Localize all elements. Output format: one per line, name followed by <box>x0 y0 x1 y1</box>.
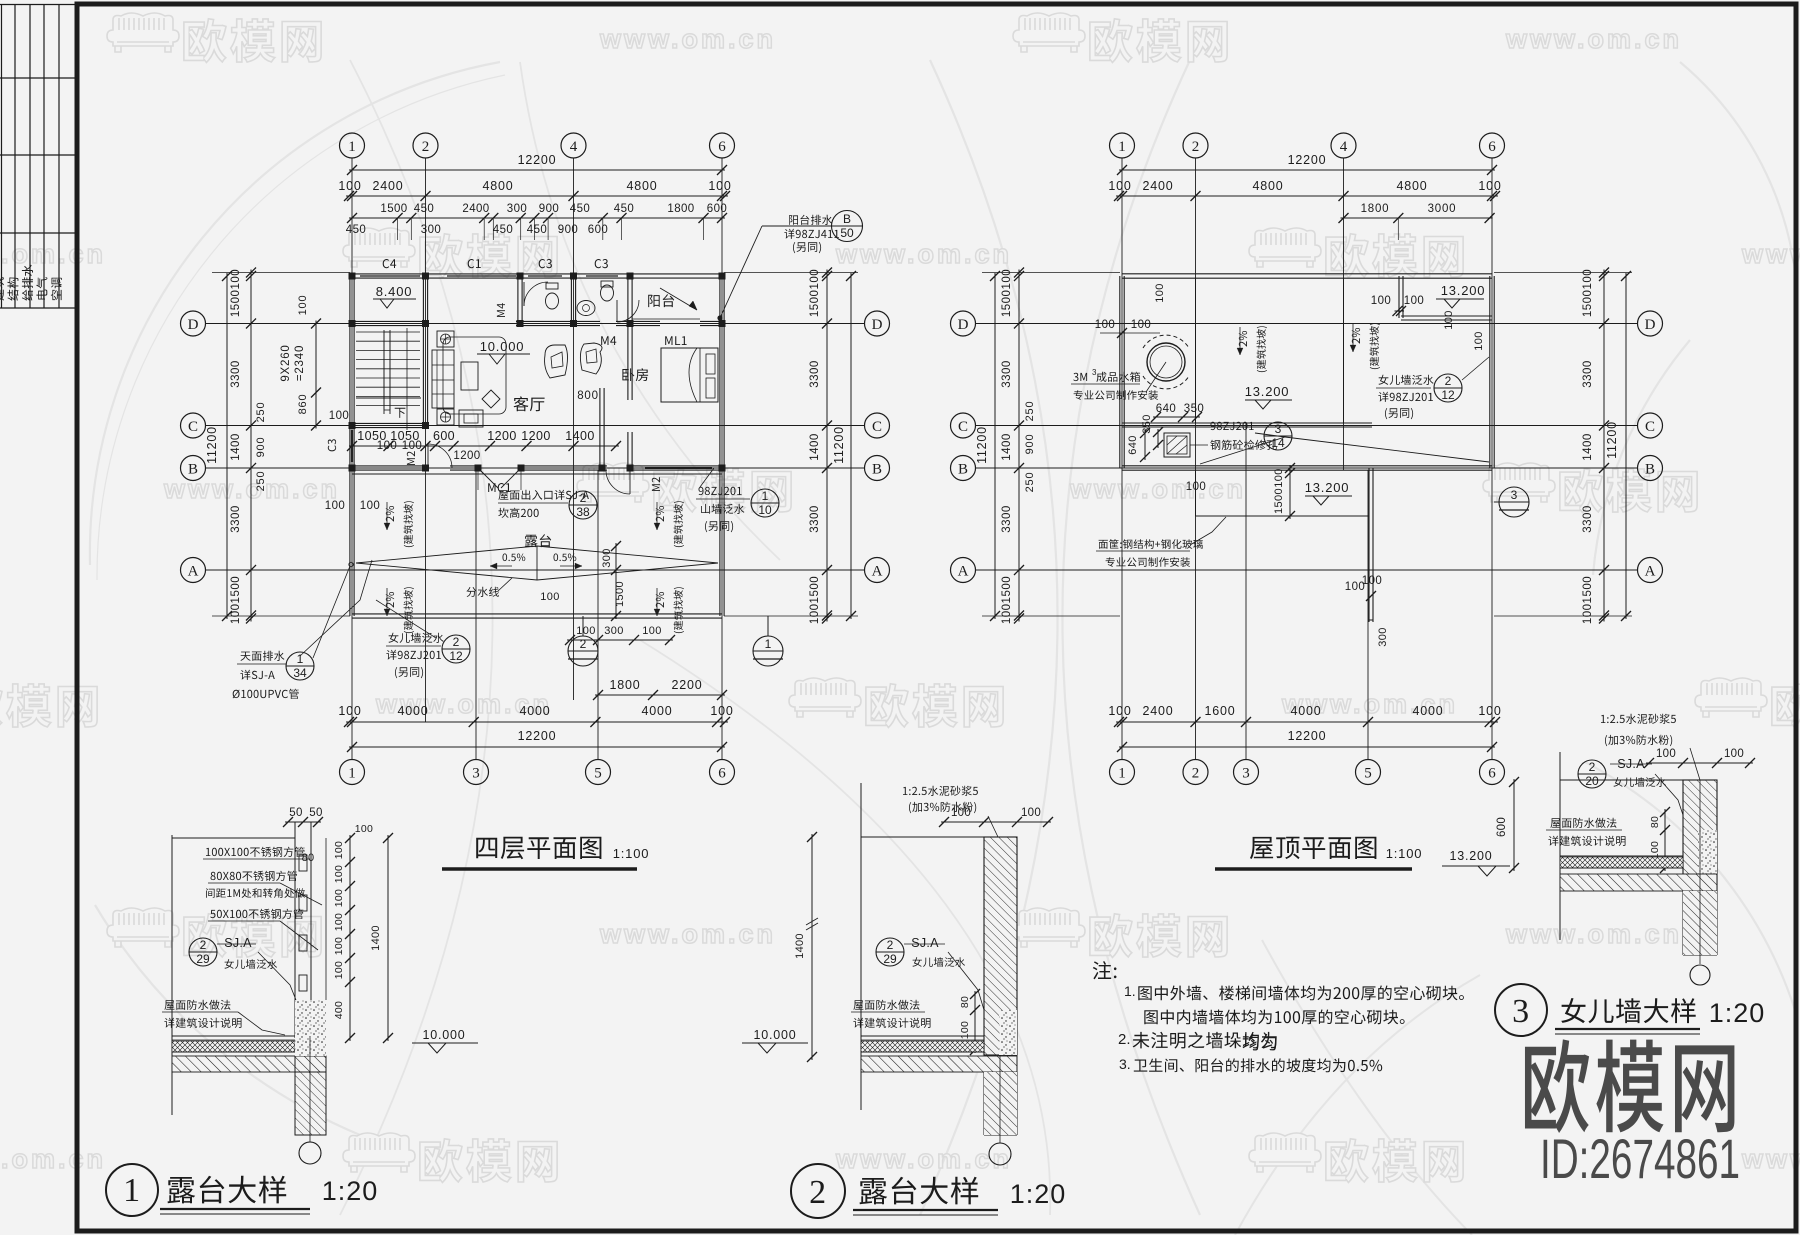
strip label 空调 <box>51 278 62 300</box>
svg-text:100: 100 <box>377 440 397 452</box>
exterior wall left <box>349 276 351 616</box>
grid bubble B right <box>865 456 890 481</box>
grid bubble 6 bottom <box>710 760 735 785</box>
grid bubble C left <box>181 413 206 438</box>
grid line 4 <box>573 158 575 470</box>
svg-text:1400: 1400 <box>809 433 821 461</box>
column D wall <box>349 320 356 327</box>
svg-text:1500100: 1500100 <box>1001 269 1013 317</box>
svg-text:B: B <box>188 461 198 477</box>
column top wall <box>627 273 634 280</box>
svg-text:1200: 1200 <box>453 450 480 462</box>
column B wall <box>627 465 634 472</box>
grid bubble D right <box>865 311 890 336</box>
site logo bottom right <box>1525 1039 1734 1133</box>
column top wall <box>349 273 356 280</box>
roof inner line 2 <box>1195 278 1197 423</box>
window C3b <box>586 273 618 275</box>
wall on grid B <box>352 465 425 467</box>
canopy below B <box>1195 470 1197 516</box>
roof grid bubble 2 bottom <box>1183 760 1208 785</box>
roof grid bubble B left <box>951 456 976 481</box>
svg-text:1001500: 1001500 <box>809 576 821 624</box>
svg-text:6: 6 <box>1488 765 1496 781</box>
column D wall <box>517 320 524 327</box>
column B wall <box>719 465 726 472</box>
svg-text:C: C <box>188 419 198 435</box>
label living room <box>514 396 545 411</box>
roof grid bubble C right <box>1638 413 1663 438</box>
balcony drain annotation <box>789 215 832 225</box>
grid line B <box>205 467 865 469</box>
svg-text:3: 3 <box>472 765 480 781</box>
bath2 door arc <box>616 300 618 322</box>
svg-text:11200: 11200 <box>1605 421 1619 459</box>
column D wall <box>627 320 634 327</box>
label C3 rotated left <box>328 439 336 451</box>
grid bubble 3 bottom <box>464 760 489 785</box>
svg-text:1400: 1400 <box>370 925 382 951</box>
svg-text:ID:2674861: ID:2674861 <box>1540 1127 1740 1190</box>
svg-text:5: 5 <box>594 765 602 781</box>
grid bubble 1 bottom <box>340 760 365 785</box>
door M2 left arc <box>427 444 429 468</box>
svg-text:1: 1 <box>1118 765 1126 781</box>
detail2 SJ.A ref <box>876 938 904 966</box>
svg-text:300: 300 <box>421 224 441 236</box>
detail3 axis line <box>1559 752 1561 940</box>
detail2 wall below <box>983 1072 985 1135</box>
svg-text:2.: 2. <box>1118 1031 1131 1048</box>
slope 0.5% right <box>554 554 577 562</box>
living room rug outline <box>443 337 506 414</box>
svg-text:1200: 1200 <box>487 429 516 443</box>
title: 4th floor plan <box>476 837 601 860</box>
svg-text:11200: 11200 <box>832 426 846 464</box>
bathroom wall vertical 2 (grid 4) <box>570 276 572 324</box>
svg-text:11200: 11200 <box>205 426 219 464</box>
svg-text:100: 100 <box>1095 319 1115 331</box>
roof grid bubble 3 bottom <box>1234 760 1259 785</box>
svg-text:100: 100 <box>576 625 596 637</box>
column top wall <box>422 273 429 280</box>
detail3 SJ.A ref <box>1578 760 1606 788</box>
svg-text:1001500: 1001500 <box>230 576 242 624</box>
detail1 waterproof note <box>164 1000 230 1010</box>
label terrace <box>525 534 551 547</box>
svg-text:11200: 11200 <box>975 426 989 464</box>
svg-text:80: 80 <box>302 852 315 864</box>
svg-text:450: 450 <box>614 203 634 215</box>
svg-text:800: 800 <box>577 390 599 402</box>
svg-text:A: A <box>1645 563 1656 579</box>
detail3 wall speckle <box>1698 830 1717 875</box>
svg-text:B: B <box>843 212 851 226</box>
svg-text:3.: 3. <box>1119 1056 1131 1072</box>
grid bubble 2 top <box>413 133 438 158</box>
svg-text:2: 2 <box>422 139 430 155</box>
svg-text:100: 100 <box>1186 481 1206 493</box>
roof bottom edge at B <box>1122 465 1492 467</box>
label watershed line <box>467 587 500 597</box>
svg-text:100: 100 <box>1021 807 1041 819</box>
label C1 <box>468 259 481 268</box>
svg-text:250: 250 <box>1024 472 1036 493</box>
window C1 <box>447 273 516 275</box>
svg-text:100: 100 <box>355 823 373 835</box>
svg-text:100: 100 <box>338 704 361 718</box>
svg-text:100: 100 <box>1656 748 1676 760</box>
slope 2% group top-left <box>386 506 394 522</box>
svg-text:250: 250 <box>255 471 267 492</box>
svg-text:450: 450 <box>493 224 513 236</box>
detail3 slab <box>1560 855 1683 857</box>
svg-text:D: D <box>1645 317 1656 333</box>
exterior wall right <box>719 276 721 616</box>
svg-text:1400: 1400 <box>565 429 594 443</box>
detail1 top slab line <box>172 837 295 839</box>
svg-text:D: D <box>188 317 199 333</box>
window on B wall bedroom <box>645 465 712 467</box>
svg-text:1:100: 1:100 <box>613 846 650 861</box>
grid bubble C right <box>865 413 890 438</box>
wall on grid D <box>352 320 426 322</box>
svg-text:80: 80 <box>1649 816 1661 828</box>
svg-text:20: 20 <box>1585 774 1599 788</box>
column top wall <box>517 273 524 280</box>
svg-text:100: 100 <box>710 704 733 718</box>
grid line 3R <box>1245 423 1247 760</box>
svg-text:2: 2 <box>453 635 460 649</box>
window C3 left wall <box>349 430 351 462</box>
MC1 double door <box>480 470 498 488</box>
svg-text:100: 100 <box>360 500 380 512</box>
svg-text:10.000: 10.000 <box>480 339 525 354</box>
label xia (down) <box>395 408 406 418</box>
svg-text:100: 100 <box>1371 295 1391 307</box>
svg-text:1800: 1800 <box>667 203 694 215</box>
roof side dims right <box>1625 273 1627 619</box>
svg-text:600: 600 <box>433 429 455 443</box>
detail3 wall below <box>1682 891 1684 955</box>
grid line D <box>205 323 865 325</box>
svg-text:3300: 3300 <box>1001 505 1013 533</box>
svg-text:A: A <box>188 563 199 579</box>
grid line 1R <box>1121 158 1123 760</box>
svg-text:3300: 3300 <box>1001 360 1013 388</box>
column B wall <box>599 465 606 472</box>
grid line B right plan <box>975 467 1638 469</box>
svg-text:12200: 12200 <box>1288 153 1327 167</box>
svg-text:1:20: 1:20 <box>1010 1179 1067 1209</box>
roof grid bubble D left <box>951 311 976 336</box>
svg-text:450: 450 <box>414 203 434 215</box>
svg-text:100: 100 <box>1478 704 1501 718</box>
svg-text:29: 29 <box>196 952 210 966</box>
roof grid bubble 2 top <box>1183 133 1208 158</box>
balcony roof divider <box>1398 276 1400 318</box>
svg-text:12200: 12200 <box>518 729 557 743</box>
label C3b <box>595 259 608 268</box>
svg-text:SJ.A: SJ.A <box>911 936 939 950</box>
tank label <box>1073 373 1087 381</box>
terrace ridge lines <box>356 546 718 563</box>
stair down arrow <box>406 328 408 430</box>
svg-text:3300: 3300 <box>1582 360 1594 388</box>
detail3 parapet wall <box>1683 780 1717 891</box>
svg-text:100: 100 <box>338 179 361 193</box>
grid bubble D left <box>181 311 206 336</box>
detail1 parapet concrete fill <box>295 1000 326 1056</box>
detail2 axis circle <box>989 1143 1011 1165</box>
svg-text:1: 1 <box>348 139 356 155</box>
toilet 2 <box>601 285 614 301</box>
grid bubble A right <box>865 558 890 583</box>
roof side dims left <box>994 273 996 619</box>
balcony bottom rail <box>632 318 700 320</box>
svg-text:100: 100 <box>1131 319 1151 331</box>
bedroom/hall wall <box>627 324 629 401</box>
detail2 top line <box>861 836 984 838</box>
svg-text:100: 100 <box>333 865 345 883</box>
detail 2 title <box>791 1164 845 1218</box>
svg-text:50: 50 <box>309 807 322 819</box>
svg-text:3: 3 <box>1092 368 1097 377</box>
svg-text:13.200: 13.200 <box>1245 384 1290 399</box>
grid line 5 <box>597 470 599 760</box>
svg-text:6: 6 <box>718 139 726 155</box>
svg-text:100: 100 <box>297 295 309 316</box>
svg-text:3000: 3000 <box>1428 203 1457 215</box>
svg-text:13.200: 13.200 <box>1441 283 1486 298</box>
svg-text:50: 50 <box>289 807 302 819</box>
svg-text:38: 38 <box>576 505 590 519</box>
slope 0.5% left <box>503 554 526 562</box>
svg-text:1001500: 1001500 <box>1001 576 1013 624</box>
svg-text:12200: 12200 <box>518 153 557 167</box>
svg-text:100: 100 <box>1154 283 1166 303</box>
svg-text:1500100: 1500100 <box>230 269 242 317</box>
svg-text:900: 900 <box>255 437 267 458</box>
svg-text:14: 14 <box>1271 436 1285 450</box>
shower glyph 1 <box>545 345 568 378</box>
svg-text:900: 900 <box>539 203 559 215</box>
grid line C <box>205 425 865 427</box>
column top wall <box>719 273 726 280</box>
column C <box>349 422 356 429</box>
detail1 labels <box>206 847 305 857</box>
column B wall <box>349 465 356 472</box>
column B wall <box>475 465 482 472</box>
svg-text:2: 2 <box>1192 139 1200 155</box>
svg-text:4: 4 <box>1340 139 1348 155</box>
roof grid bubble 6 top <box>1480 133 1505 158</box>
svg-text:100: 100 <box>1443 310 1455 330</box>
left plan left dimension chain <box>226 273 228 619</box>
detail2 waterproof note <box>853 1000 919 1010</box>
svg-text:10: 10 <box>758 503 772 517</box>
detail1 wall axis line <box>171 835 173 1115</box>
svg-text:450: 450 <box>570 203 590 215</box>
detail1 axis circle <box>299 1142 321 1164</box>
svg-text:SJ.A: SJ.A <box>224 936 252 950</box>
svg-text:1: 1 <box>348 765 356 781</box>
slope 2% group bottom-right <box>656 592 664 608</box>
svg-text:1001500: 1001500 <box>1582 576 1594 624</box>
label C3 <box>539 259 552 268</box>
svg-text:2: 2 <box>887 938 894 952</box>
svg-text:C: C <box>872 419 882 435</box>
svg-text:1800: 1800 <box>1361 203 1390 215</box>
svg-text:29: 29 <box>883 952 897 966</box>
parapet flashing annotation <box>389 633 444 643</box>
svg-text:3300: 3300 <box>230 505 242 533</box>
detail3 top line <box>1560 779 1683 781</box>
svg-text:100: 100 <box>1273 468 1285 488</box>
label M4 on D wall <box>601 336 616 345</box>
parapet flashing annotation roof <box>1379 375 1434 385</box>
svg-text:4800: 4800 <box>1396 179 1427 193</box>
label bedroom <box>622 368 648 381</box>
svg-text:300: 300 <box>507 203 527 215</box>
label M2 rotated <box>407 451 415 465</box>
svg-text:1: 1 <box>765 637 772 651</box>
strip label 结构 <box>7 278 18 301</box>
svg-text:6: 6 <box>718 765 726 781</box>
detail2 1400 dim <box>811 834 813 1060</box>
svg-text:100: 100 <box>951 807 971 819</box>
sofa <box>432 350 454 408</box>
svg-text:640: 640 <box>1127 435 1139 455</box>
column B wall <box>422 465 429 472</box>
svg-text:100: 100 <box>333 841 345 859</box>
svg-text:1600: 1600 <box>1204 704 1235 718</box>
column top wall <box>570 273 577 280</box>
svg-text:1400: 1400 <box>1001 433 1013 461</box>
grid line 2R <box>1195 158 1197 760</box>
svg-text:100: 100 <box>329 410 349 422</box>
svg-text:3: 3 <box>1242 765 1250 781</box>
svg-text:100: 100 <box>402 440 422 452</box>
svg-text:A: A <box>958 563 969 579</box>
roof parapet top <box>1122 273 1492 275</box>
label C4 <box>383 259 397 268</box>
svg-text:1:100: 1:100 <box>1386 846 1423 861</box>
grid line D right plan <box>975 323 1638 325</box>
svg-text:300: 300 <box>1377 627 1389 647</box>
svg-text:100: 100 <box>1362 575 1382 587</box>
left plan right dimension chain <box>850 273 852 619</box>
grid bubble 6 top <box>710 133 735 158</box>
svg-text:4000: 4000 <box>1412 704 1443 718</box>
detail2 slab <box>861 1035 984 1037</box>
svg-text:100: 100 <box>708 179 731 193</box>
grid line A <box>205 569 865 571</box>
slope 2% group top-right <box>656 506 664 522</box>
shower glyph 2 <box>580 343 602 374</box>
svg-text:1500: 1500 <box>1273 488 1285 514</box>
roof grid bubble 5 bottom <box>1356 760 1381 785</box>
svg-text:2: 2 <box>1445 374 1452 388</box>
svg-text:4: 4 <box>570 139 578 155</box>
svg-text:1: 1 <box>762 489 769 503</box>
svg-text:100: 100 <box>333 937 345 955</box>
bathroom wall vertical 1 <box>517 276 519 324</box>
water tank <box>1147 343 1185 381</box>
background decorative arcs <box>90 62 500 565</box>
grid bubble B left <box>181 456 206 481</box>
label ML1 <box>665 336 686 345</box>
section cut 3 right <box>1494 501 1500 503</box>
svg-text:2: 2 <box>200 938 207 952</box>
svg-text:2400: 2400 <box>1142 179 1173 193</box>
grid bubble 1 top <box>340 133 365 158</box>
strip label 电气 <box>36 277 47 299</box>
roof slope 2% right <box>1352 328 1360 344</box>
svg-text:2400: 2400 <box>462 203 489 215</box>
roof grid bubble D right <box>1638 311 1663 336</box>
grid line A right plan <box>975 569 1638 571</box>
svg-text:1: 1 <box>1118 139 1126 155</box>
window C3 <box>528 273 562 275</box>
svg-text:13.200: 13.200 <box>1449 849 1492 863</box>
detail1 SJ.A ref <box>189 938 217 966</box>
svg-text:100: 100 <box>325 500 345 512</box>
canopy label <box>1099 539 1203 549</box>
grid line 2 <box>425 158 427 470</box>
left outside annotation: roof drain <box>241 651 285 661</box>
svg-text:100: 100 <box>1478 179 1501 193</box>
svg-text:10.000: 10.000 <box>753 1028 796 1042</box>
detail2 wall speckle <box>999 1010 1017 1055</box>
svg-text:4800: 4800 <box>482 179 513 193</box>
grid line 4R <box>1343 158 1345 470</box>
grid bubble 5 bottom <box>586 760 611 785</box>
svg-text:100: 100 <box>333 913 345 931</box>
svg-text:4000: 4000 <box>1290 704 1321 718</box>
svg-text:100: 100 <box>642 625 662 637</box>
notes block <box>1093 961 1117 979</box>
exterior wall top <box>352 273 722 275</box>
svg-text:1: 1 <box>123 1172 141 1209</box>
label M4 rotated <box>497 303 505 317</box>
svg-text:1400: 1400 <box>230 433 242 461</box>
decor diamond <box>482 390 500 408</box>
hall nib wall <box>599 388 601 468</box>
roof ridge diagonals <box>1285 437 1489 462</box>
watermark tiles <box>107 13 179 52</box>
roof lower edge line <box>1122 422 1372 424</box>
grid line 3 <box>475 470 477 760</box>
svg-text:600: 600 <box>1496 817 1508 837</box>
svg-text:2: 2 <box>1192 765 1200 781</box>
svg-text:4000: 4000 <box>397 704 428 718</box>
svg-text:6: 6 <box>1488 139 1496 155</box>
roof grid bubble B right <box>1638 456 1663 481</box>
svg-text:4800: 4800 <box>626 179 657 193</box>
hatch labels <box>1211 422 1254 430</box>
roof slope 2% left <box>1239 331 1247 347</box>
svg-text:5: 5 <box>1364 765 1372 781</box>
svg-text:250: 250 <box>255 402 267 423</box>
svg-text:640: 640 <box>1156 403 1176 415</box>
svg-text:2400: 2400 <box>372 179 403 193</box>
detail1 slab build-up <box>172 1035 310 1037</box>
access hatch <box>1164 433 1190 457</box>
roof grid bubble A right <box>1638 558 1663 583</box>
svg-text:1500100: 1500100 <box>1582 269 1594 317</box>
grid line 1 <box>351 158 353 760</box>
